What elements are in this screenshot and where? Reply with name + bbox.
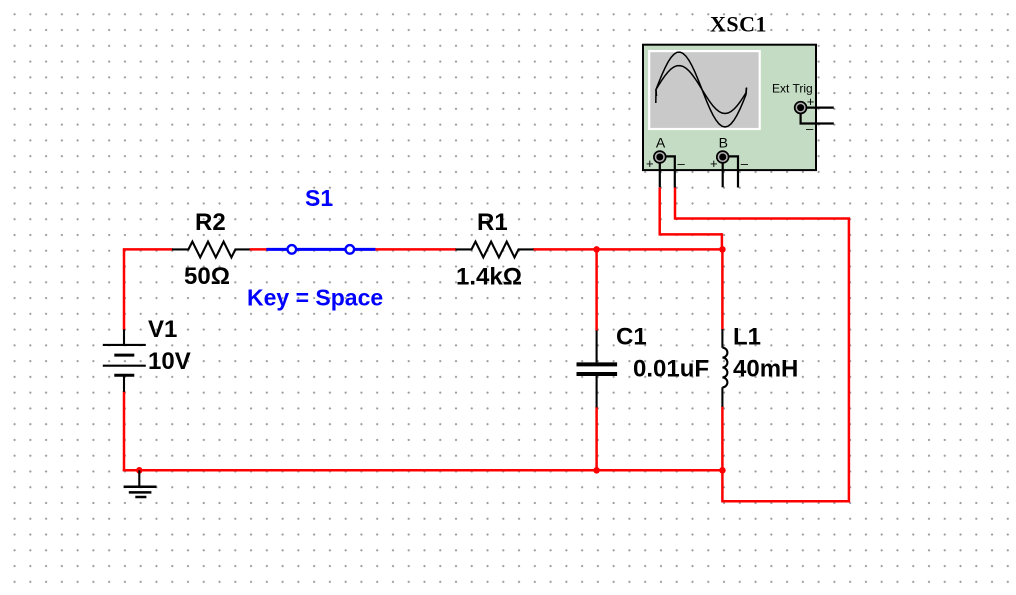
svg-text:10V: 10V	[148, 348, 191, 375]
svg-text:–: –	[678, 156, 686, 171]
pin stub ExtTrig-	[801, 112, 834, 124]
junction node: ground	[136, 467, 143, 474]
junction node: C1 top	[593, 246, 600, 253]
wire: red between S1 and R1	[375, 248, 456, 251]
capacitor C1	[577, 324, 710, 408]
svg-text:–: –	[806, 121, 814, 136]
svg-text:0.01uF: 0.01uF	[633, 356, 709, 383]
wire: horizontal to scope A- column	[675, 217, 850, 220]
wire: red between R2 and S1	[250, 248, 268, 251]
svg-text:+: +	[710, 156, 718, 171]
svg-text:+: +	[807, 94, 815, 109]
battery V1	[103, 316, 191, 392]
wire: vertical up to scope A- stub	[674, 188, 677, 220]
inductor L1	[722, 324, 798, 407]
resistor R1	[456, 209, 534, 291]
svg-text:L1: L1	[733, 324, 761, 351]
pin stub ExtTrig+	[805, 106, 834, 108]
wire: C1 top vertical	[595, 249, 598, 331]
wire: V1 bottom to bottom-left corner	[123, 391, 126, 471]
svg-text:–: –	[741, 156, 749, 171]
scope trace channel A	[656, 52, 747, 127]
terminal B	[717, 151, 729, 163]
svg-text:Key = Space: Key = Space	[247, 285, 383, 311]
svg-text:1.4kΩ: 1.4kΩ	[456, 264, 522, 291]
wire: scope A+ horizontal jog	[659, 233, 722, 236]
svg-text:B: B	[719, 135, 728, 151]
wire: scope A+ down	[658, 188, 661, 235]
pin stub A+	[659, 162, 661, 187]
pin stub A-	[665, 156, 675, 187]
junction node: L1 top	[719, 246, 726, 253]
oscilloscope XSC1	[643, 12, 834, 188]
svg-text:+: +	[646, 156, 654, 171]
svg-text:V1: V1	[148, 316, 177, 343]
wire: top horizontal from left corner to R2	[123, 248, 173, 251]
scope screen	[649, 51, 760, 129]
wire: C1 bottom vertical	[595, 407, 598, 471]
scope trace channel B	[656, 66, 746, 114]
svg-text:50Ω: 50Ω	[184, 263, 230, 290]
wire: top horizontal from R1 to L1 junction	[533, 248, 722, 251]
svg-text:R1: R1	[477, 209, 508, 236]
wire: scope A+ down to top node	[721, 233, 724, 249]
pin stub B+	[722, 162, 724, 187]
svg-text:40mH: 40mH	[733, 356, 798, 383]
wire: L1 bottom vertical through junction to lower corner	[721, 406, 724, 501]
svg-text:XSC1: XSC1	[710, 12, 767, 37]
wire: L1 top vertical	[721, 249, 724, 329]
switch S1	[247, 185, 383, 311]
terminal Ext Trig	[795, 102, 807, 114]
wire: bottom-right horizontal	[721, 500, 849, 503]
junction node: L1 bottom	[719, 467, 726, 474]
wire: left vertical from top corner down to V1 top	[123, 249, 126, 330]
wire: right vertical up to scope level	[848, 219, 851, 503]
svg-text:S1: S1	[305, 185, 333, 211]
svg-text:C1: C1	[616, 324, 647, 351]
junction node: C1 bottom	[593, 467, 600, 474]
svg-text:R2: R2	[195, 209, 226, 236]
ground	[124, 470, 157, 497]
wire: bottom horizontal rail	[123, 469, 723, 472]
resistor R2	[172, 209, 250, 290]
svg-text:A: A	[656, 135, 666, 151]
pin stub B-	[728, 156, 738, 187]
terminal A	[654, 151, 666, 163]
